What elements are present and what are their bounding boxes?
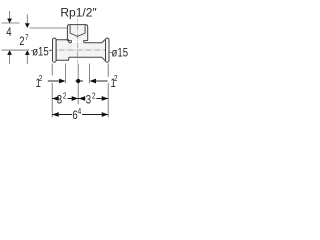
boss shoulders [67, 40, 87, 42]
origin dot [76, 79, 80, 83]
leader dash dia15 right [109, 52, 112, 54]
branch boss outline [67, 25, 87, 41]
svg-text:2: 2 [63, 91, 67, 101]
ext line left end [51, 64, 53, 118]
dim line 6.4 [52, 114, 108, 116]
right bead [106, 38, 110, 62]
right socket end face [105, 40, 107, 60]
leader dash dia15 left [31, 50, 52, 52]
svg-text:ø15: ø15 [112, 46, 129, 59]
dim stem 2.7 top [26, 15, 28, 24]
body bottom edge [69, 56, 101, 58]
dim line 1.2 right tail [96, 80, 108, 82]
svg-text:2: 2 [114, 73, 118, 83]
pipe body fill [53, 38, 110, 62]
arrow right 3.2a [72, 96, 79, 101]
svg-text:3: 3 [86, 94, 91, 107]
arrow right to left insertion [59, 79, 66, 84]
dim stem 4 top [9, 11, 11, 19]
thread chamfer V [70, 33, 85, 36]
ext line thread seat [30, 27, 68, 29]
svg-text:2: 2 [19, 35, 24, 48]
svg-text:4: 4 [78, 106, 82, 116]
ext line centerline level [2, 49, 30, 51]
arrow left 6.4 [52, 112, 59, 117]
arrow left 3.2a [52, 96, 59, 101]
dim line 3.2 right [79, 98, 109, 100]
left socket end face [55, 40, 57, 60]
svg-text:7: 7 [25, 32, 29, 42]
svg-text:4: 4 [6, 26, 11, 39]
body top edge [69, 42, 101, 44]
dim line dot stub [76, 80, 83, 82]
svg-text:ø15: ø15 [32, 46, 49, 59]
boss neck with fillets [70, 41, 84, 43]
arrow left to right insertion [90, 79, 97, 84]
right flare [101, 40, 104, 60]
svg-text:3: 3 [57, 94, 62, 107]
arrow up 4 [7, 50, 12, 55]
dim stems below center arrows [10, 55, 28, 64]
ext line left insertion [65, 64, 67, 84]
dim line 3.2 left [52, 98, 78, 100]
ext line right insertion [89, 64, 91, 84]
right socket top [104, 40, 107, 60]
ext line right end [107, 64, 109, 118]
ext line branch center [77, 64, 79, 105]
dim line 1.2 left tail [48, 80, 60, 82]
arrow down 2.7 [25, 23, 30, 28]
thread bore lines [70, 25, 85, 33]
ext line top of thread [2, 22, 20, 24]
arrow right 6.4 [102, 112, 109, 117]
left socket top [56, 40, 69, 43]
left socket bottom [56, 57, 69, 60]
left bead [53, 38, 57, 62]
arrow left 3.2b [79, 96, 86, 101]
arrow up 2.7 [25, 50, 30, 55]
svg-text:Rp1/2″: Rp1/2″ [60, 5, 97, 19]
svg-text:2: 2 [92, 91, 96, 101]
centerline horizontal [50, 49, 111, 51]
arrow right 3.2b [102, 96, 109, 101]
svg-text:2: 2 [39, 73, 43, 83]
arrow down 4 [7, 19, 12, 24]
boss fill [67, 25, 87, 41]
centerline vertical branch [77, 19, 79, 62]
